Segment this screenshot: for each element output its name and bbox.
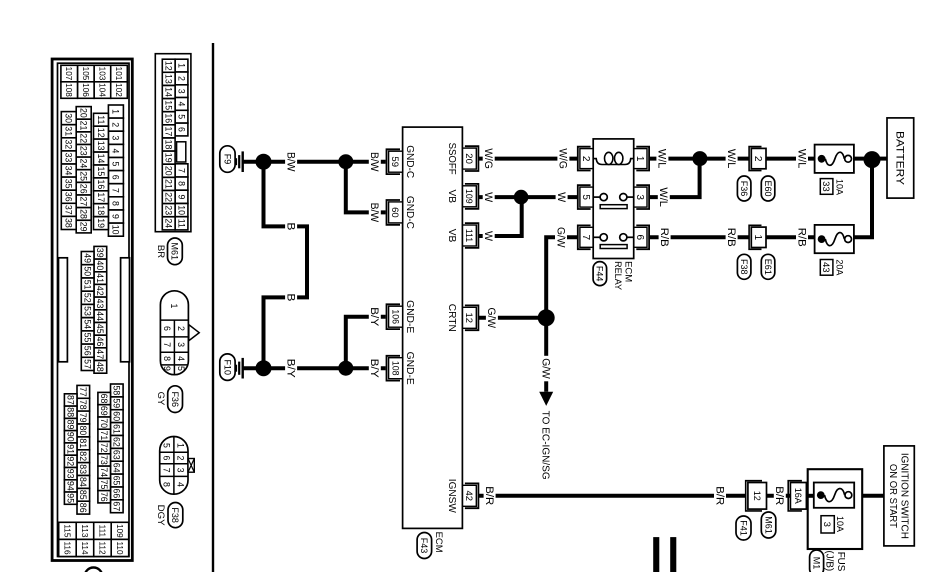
svg-text:16: 16 bbox=[164, 113, 174, 123]
svg-text:W/L: W/L bbox=[795, 149, 807, 169]
svg-text:93: 93 bbox=[66, 469, 76, 479]
svg-text:11: 11 bbox=[96, 115, 106, 124]
svg-text:F41: F41 bbox=[738, 520, 748, 536]
svg-text:G/W: G/W bbox=[485, 308, 497, 329]
wire label R/B bbox=[726, 225, 738, 249]
svg-text:109: 109 bbox=[464, 189, 474, 204]
svg-text:27: 27 bbox=[79, 196, 89, 206]
svg-text:59: 59 bbox=[112, 398, 122, 408]
oval F9 bbox=[220, 146, 235, 173]
svg-text:32: 32 bbox=[64, 139, 74, 149]
battery B+ node wire bbox=[872, 157, 887, 161]
connector F36 bbox=[160, 291, 188, 375]
ECM pin 12 CRTN bbox=[465, 305, 479, 330]
svg-text:35: 35 bbox=[64, 179, 74, 189]
svg-text:26: 26 bbox=[79, 184, 89, 194]
svg-text:F36: F36 bbox=[170, 391, 180, 407]
svg-text:7: 7 bbox=[580, 235, 591, 241]
svg-text:71: 71 bbox=[99, 431, 109, 441]
svg-text:5: 5 bbox=[111, 162, 121, 167]
node W junction bbox=[514, 190, 529, 205]
oval E60 bbox=[761, 176, 775, 201]
wire label B/R bbox=[714, 484, 726, 508]
svg-text:F43: F43 bbox=[419, 538, 429, 554]
svg-text:DGY: DGY bbox=[155, 505, 166, 527]
svg-text:68: 68 bbox=[99, 394, 109, 404]
svg-text:10: 10 bbox=[176, 205, 186, 215]
svg-text:56: 56 bbox=[83, 346, 93, 356]
svg-text:W: W bbox=[482, 231, 494, 241]
svg-text:3: 3 bbox=[634, 194, 645, 200]
svg-text:52: 52 bbox=[83, 293, 93, 303]
svg-text:20: 20 bbox=[463, 153, 474, 164]
svg-text:113: 113 bbox=[80, 524, 89, 537]
svg-text:1: 1 bbox=[111, 109, 121, 114]
oval F43 bbox=[417, 533, 432, 559]
svg-text:GY: GY bbox=[155, 392, 166, 406]
svg-text:87: 87 bbox=[66, 395, 76, 405]
svg-text:GND-C: GND-C bbox=[404, 196, 415, 229]
svg-text:102: 102 bbox=[114, 83, 123, 97]
svg-text:64: 64 bbox=[112, 463, 122, 473]
svg-text:18: 18 bbox=[164, 140, 174, 150]
page continuation mark lower bbox=[653, 537, 659, 572]
ECM connector guide slot upper bbox=[121, 258, 130, 362]
wire node to fuse 33 bbox=[854, 157, 872, 161]
svg-text:72: 72 bbox=[99, 443, 109, 453]
relay U1 ECM RELAY box bbox=[593, 139, 634, 259]
svg-text:BATTERY: BATTERY bbox=[894, 131, 906, 186]
svg-text:21: 21 bbox=[164, 179, 174, 189]
svg-text:8: 8 bbox=[176, 181, 186, 186]
wire B/Y pin106 to node bbox=[346, 317, 386, 369]
wire ign sw to fuse block bbox=[854, 494, 884, 498]
svg-text:6: 6 bbox=[634, 235, 645, 241]
svg-text:F10: F10 bbox=[222, 359, 232, 375]
wire label G/W bbox=[486, 305, 498, 331]
svg-text:89: 89 bbox=[66, 420, 76, 430]
page continuation mark upper bbox=[670, 537, 676, 572]
svg-text:ECM: ECM bbox=[623, 261, 634, 282]
svg-text:62: 62 bbox=[112, 437, 122, 447]
oval F38 bbox=[737, 254, 751, 279]
svg-text:W/G: W/G bbox=[557, 148, 569, 169]
svg-text:1: 1 bbox=[634, 156, 645, 162]
svg-text:73: 73 bbox=[99, 455, 109, 465]
svg-text:4: 4 bbox=[111, 148, 121, 153]
svg-text:1: 1 bbox=[169, 304, 179, 309]
svg-text:69: 69 bbox=[99, 406, 109, 416]
svg-text:2: 2 bbox=[176, 456, 186, 461]
svg-text:W/L: W/L bbox=[725, 149, 737, 169]
wire B/W pin60 to node bbox=[346, 162, 386, 213]
relay pin 6 bbox=[636, 225, 649, 249]
svg-text:24: 24 bbox=[164, 218, 174, 228]
ECM connector rows 11-19 bbox=[94, 113, 109, 126]
wire R/B fuse43 to connector E61-F38 bbox=[766, 235, 815, 239]
connector M61/F41 pin 12 bbox=[746, 481, 762, 511]
wire label W bbox=[483, 190, 495, 205]
wire label R/B bbox=[659, 225, 671, 249]
svg-text:109: 109 bbox=[115, 524, 124, 538]
wire R/B connector to relay pin 6 bbox=[649, 235, 749, 239]
svg-text:12: 12 bbox=[164, 61, 174, 71]
svg-text:8: 8 bbox=[162, 356, 172, 361]
svg-text:R/B: R/B bbox=[725, 228, 737, 247]
svg-text:59: 59 bbox=[389, 156, 400, 167]
svg-text:W/L: W/L bbox=[657, 187, 669, 207]
svg-text:1: 1 bbox=[752, 235, 763, 241]
svg-text:2: 2 bbox=[176, 326, 186, 331]
svg-text:22: 22 bbox=[79, 133, 89, 143]
wire W/G relay pin2 to ECM pin20 bbox=[479, 157, 578, 161]
svg-text:85: 85 bbox=[78, 490, 88, 500]
svg-text:B/W: B/W bbox=[368, 203, 380, 223]
ground symbol F10 bbox=[242, 358, 244, 379]
svg-text:16A: 16A bbox=[793, 488, 803, 504]
svg-text:41: 41 bbox=[95, 273, 105, 283]
ECM pin 60 GND-C bbox=[387, 200, 401, 225]
svg-text:51: 51 bbox=[83, 280, 93, 290]
node W/L junction bbox=[692, 151, 707, 166]
oval F41 bbox=[736, 516, 751, 540]
svg-text:B/W: B/W bbox=[368, 152, 380, 172]
svg-text:115: 115 bbox=[63, 524, 72, 537]
svg-text:2: 2 bbox=[111, 122, 121, 127]
svg-text:ECM: ECM bbox=[433, 532, 444, 553]
relay pin 2 bbox=[578, 147, 591, 171]
ECM connector rows 1-10 bbox=[108, 105, 123, 118]
svg-text:RELAY: RELAY bbox=[612, 261, 623, 291]
svg-text:10: 10 bbox=[111, 225, 121, 235]
wire battery node to fuse 43 branch bbox=[854, 159, 872, 238]
svg-text:B/R: B/R bbox=[773, 486, 785, 505]
svg-text:5: 5 bbox=[176, 114, 186, 119]
svg-text:20: 20 bbox=[79, 108, 89, 118]
svg-text:3: 3 bbox=[176, 468, 186, 473]
arrow to EC-IGN/SG bbox=[539, 392, 553, 406]
svg-text:W: W bbox=[555, 192, 567, 202]
svg-text:91: 91 bbox=[66, 444, 76, 454]
ECM connector rows 68-76 bbox=[98, 392, 111, 404]
svg-text:23: 23 bbox=[79, 146, 89, 156]
svg-text:82: 82 bbox=[78, 451, 88, 461]
svg-text:W/L: W/L bbox=[656, 149, 668, 169]
svg-text:VB: VB bbox=[446, 190, 457, 204]
fuse 43 20A bbox=[815, 225, 854, 253]
node F10 ground junction bbox=[256, 360, 272, 376]
node B/W junction bbox=[338, 154, 353, 169]
svg-text:33: 33 bbox=[64, 153, 74, 163]
svg-text:B: B bbox=[284, 293, 296, 301]
svg-text:49: 49 bbox=[83, 253, 93, 263]
svg-text:W/G: W/G bbox=[482, 148, 494, 169]
svg-text:46: 46 bbox=[95, 337, 105, 347]
oval M61 passthrough bbox=[761, 512, 776, 538]
svg-text:VB: VB bbox=[446, 229, 457, 243]
svg-text:M1: M1 bbox=[811, 557, 821, 570]
svg-text:B/R: B/R bbox=[713, 486, 725, 505]
ECM pin 42 IGNSW bbox=[465, 483, 479, 508]
svg-text:23: 23 bbox=[164, 205, 174, 215]
ECM connector outer box bbox=[52, 59, 132, 561]
svg-text:16: 16 bbox=[96, 180, 106, 190]
svg-text:45: 45 bbox=[95, 324, 105, 334]
svg-text:19: 19 bbox=[164, 153, 174, 163]
wire label B/R bbox=[774, 484, 786, 508]
ECM pin 109 VB bbox=[465, 184, 479, 209]
ECM connector rows 39-48 bbox=[94, 246, 107, 259]
oval F36 GY bbox=[168, 386, 183, 413]
svg-text:67: 67 bbox=[112, 501, 122, 511]
svg-text:57: 57 bbox=[83, 359, 93, 369]
svg-text:CRTN: CRTN bbox=[446, 304, 457, 332]
relay pin 1 bbox=[636, 147, 649, 171]
ECM U2 box bbox=[403, 127, 463, 528]
svg-text:90: 90 bbox=[66, 432, 76, 442]
wire label B/W bbox=[369, 200, 381, 225]
svg-text:33: 33 bbox=[820, 181, 831, 192]
wire G/W node to ECM pin12 bbox=[479, 316, 546, 320]
wire label B/W bbox=[285, 149, 297, 174]
svg-text:77: 77 bbox=[78, 387, 88, 397]
wire fuse block to 16A connector bbox=[803, 494, 814, 498]
svg-text:54: 54 bbox=[83, 319, 93, 329]
svg-text:3: 3 bbox=[176, 342, 186, 347]
wire label B bbox=[285, 291, 297, 304]
wire label G/W bbox=[555, 225, 567, 251]
svg-text:43: 43 bbox=[820, 262, 831, 273]
svg-text:86: 86 bbox=[78, 503, 88, 513]
svg-text:74: 74 bbox=[99, 467, 109, 477]
bolt circle at page edge bbox=[85, 568, 103, 572]
svg-text:R/B: R/B bbox=[658, 228, 670, 247]
svg-text:63: 63 bbox=[112, 450, 122, 460]
svg-text:B/Y: B/Y bbox=[368, 307, 380, 326]
svg-text:38: 38 bbox=[64, 218, 74, 228]
svg-text:3: 3 bbox=[111, 135, 121, 140]
svg-text:BR: BR bbox=[155, 245, 166, 258]
svg-text:E61: E61 bbox=[763, 259, 773, 275]
wire label W bbox=[556, 190, 568, 205]
ignition switch box bbox=[884, 446, 914, 546]
svg-text:104: 104 bbox=[97, 83, 106, 97]
wire B/W node to ground node bbox=[264, 160, 346, 164]
svg-text:116: 116 bbox=[63, 541, 72, 554]
relay pin 3 bbox=[636, 185, 649, 209]
svg-text:E60: E60 bbox=[763, 180, 773, 196]
svg-text:20A: 20A bbox=[834, 259, 845, 276]
svg-text:25: 25 bbox=[79, 171, 89, 181]
wire B/R 16A to connector 12 bbox=[766, 494, 790, 498]
svg-text:F44: F44 bbox=[595, 266, 605, 282]
svg-text:F9: F9 bbox=[222, 154, 232, 165]
node F9 ground junction bbox=[256, 154, 272, 170]
svg-text:15: 15 bbox=[164, 100, 174, 110]
svg-text:B/W: B/W bbox=[284, 152, 296, 172]
wire W relay pin5 to ECM pin109 bbox=[479, 195, 578, 199]
svg-text:39: 39 bbox=[95, 248, 105, 258]
wire label B/Y bbox=[285, 356, 297, 380]
svg-text:B/R: B/R bbox=[483, 486, 495, 505]
oval M1 bbox=[810, 550, 824, 572]
svg-text:40: 40 bbox=[95, 261, 105, 271]
wire B/Y pin108 to node bbox=[346, 366, 386, 370]
svg-text:47: 47 bbox=[95, 349, 105, 359]
svg-text:31: 31 bbox=[64, 126, 74, 136]
svg-text:7: 7 bbox=[162, 342, 172, 347]
svg-text:2: 2 bbox=[752, 156, 763, 162]
svg-text:G/W: G/W bbox=[554, 227, 566, 248]
svg-text:3: 3 bbox=[176, 89, 186, 94]
svg-text:18: 18 bbox=[96, 205, 106, 215]
ECM connector rows 87-95 bbox=[64, 394, 77, 406]
svg-text:2: 2 bbox=[580, 156, 591, 162]
ground symbol F9 bbox=[242, 151, 244, 172]
ECM connector block 101-108 bbox=[111, 65, 128, 82]
ECM connector rows 20-29 bbox=[76, 107, 91, 120]
svg-text:GND-C: GND-C bbox=[404, 145, 415, 178]
svg-text:R/B: R/B bbox=[795, 228, 807, 247]
wire G/W relay pin7 down bbox=[546, 237, 577, 317]
svg-text:111: 111 bbox=[464, 229, 474, 242]
wire label W/L bbox=[796, 146, 808, 171]
fuse number 33 bbox=[820, 179, 833, 195]
ECM pin 20 SSOFF bbox=[465, 146, 479, 171]
F36 key triangle bbox=[189, 325, 199, 341]
relay contact b bbox=[593, 236, 600, 238]
svg-text:F38: F38 bbox=[170, 507, 180, 523]
svg-text:4: 4 bbox=[176, 356, 186, 361]
connector M61 grid cells bbox=[175, 59, 188, 72]
svg-text:78: 78 bbox=[78, 400, 88, 410]
wire label B/Y bbox=[369, 305, 381, 329]
svg-text:107: 107 bbox=[64, 67, 73, 81]
relay pin 5 bbox=[578, 185, 591, 209]
svg-text:65: 65 bbox=[112, 476, 122, 486]
wire label B/W bbox=[369, 149, 381, 174]
svg-text:10A: 10A bbox=[834, 516, 845, 533]
svg-text:6: 6 bbox=[111, 175, 121, 180]
svg-text:6: 6 bbox=[162, 326, 172, 331]
svg-text:50: 50 bbox=[83, 266, 93, 276]
connector 16A J/B bbox=[788, 481, 802, 511]
separator line bbox=[212, 43, 214, 572]
svg-text:22: 22 bbox=[164, 192, 174, 202]
svg-text:5: 5 bbox=[176, 366, 186, 371]
wire label B bbox=[285, 220, 297, 233]
wire G/W node to arrow bbox=[544, 318, 548, 392]
svg-text:GND-E: GND-E bbox=[404, 300, 415, 333]
svg-text:4: 4 bbox=[176, 101, 186, 106]
svg-text:W: W bbox=[482, 192, 494, 202]
oval E61 bbox=[761, 254, 775, 279]
svg-text:37: 37 bbox=[64, 205, 74, 215]
svg-text:2: 2 bbox=[176, 76, 186, 81]
svg-text:14: 14 bbox=[164, 87, 174, 97]
wire B linking F9 and F10 grounds bbox=[264, 162, 308, 369]
svg-text:19: 19 bbox=[96, 218, 106, 228]
svg-text:28: 28 bbox=[79, 209, 89, 219]
svg-text:GND-E: GND-E bbox=[404, 352, 415, 385]
svg-text:B/Y: B/Y bbox=[368, 359, 380, 378]
svg-text:13: 13 bbox=[164, 74, 174, 84]
svg-text:58: 58 bbox=[112, 386, 122, 396]
svg-text:17: 17 bbox=[164, 127, 174, 137]
ECM pin 59 GND-C bbox=[387, 149, 401, 174]
svg-text:114: 114 bbox=[80, 541, 89, 554]
wire W/L connector to W/L node bbox=[700, 157, 749, 161]
node battery junction bbox=[864, 151, 881, 168]
svg-text:20: 20 bbox=[164, 166, 174, 176]
svg-text:111: 111 bbox=[98, 525, 107, 538]
svg-text:7: 7 bbox=[162, 468, 172, 473]
svg-text:6: 6 bbox=[162, 456, 172, 461]
svg-text:61: 61 bbox=[112, 424, 122, 434]
svg-text:108: 108 bbox=[64, 83, 73, 97]
svg-text:48: 48 bbox=[95, 362, 105, 372]
oval F36 bbox=[737, 176, 751, 201]
ECM pin 108 GND-E bbox=[387, 356, 401, 381]
fuse number 43 bbox=[820, 260, 833, 276]
battery box bbox=[887, 118, 914, 198]
wire B/Y node to ground node bbox=[264, 366, 346, 370]
svg-text:83: 83 bbox=[78, 464, 88, 474]
svg-text:FUSE BLOCK: FUSE BLOCK bbox=[835, 552, 846, 572]
svg-text:12: 12 bbox=[752, 491, 762, 501]
svg-text:75: 75 bbox=[99, 480, 109, 490]
svg-text:24: 24 bbox=[79, 159, 89, 169]
svg-text:8: 8 bbox=[111, 201, 121, 206]
ECM connector rows 77-86 bbox=[77, 385, 90, 398]
wire B/R connector 12 to ECM pin 42 bbox=[479, 494, 746, 498]
svg-text:105: 105 bbox=[81, 67, 90, 81]
svg-text:34: 34 bbox=[64, 166, 74, 176]
ECM connector block 109-116 bbox=[111, 522, 129, 539]
svg-text:12: 12 bbox=[463, 313, 474, 324]
svg-text:5: 5 bbox=[580, 194, 591, 200]
wire W/L fuse33 to connector E60-F36 bbox=[766, 157, 815, 161]
svg-text:88: 88 bbox=[66, 407, 76, 417]
svg-text:94: 94 bbox=[66, 481, 76, 491]
wire label W/L bbox=[658, 185, 670, 210]
svg-text:43: 43 bbox=[95, 299, 105, 309]
fuse number 3 bbox=[821, 516, 834, 533]
connector F38 bbox=[160, 437, 188, 495]
wire B/W pin59 to node bbox=[346, 160, 386, 164]
svg-text:76: 76 bbox=[99, 492, 109, 502]
oval M61 BR bbox=[168, 238, 183, 265]
wire label W/G bbox=[557, 146, 569, 172]
ECM pin 111 VB bbox=[465, 223, 479, 248]
ECM connector rows 58-67 bbox=[111, 384, 124, 397]
wire to ground F10 bbox=[244, 366, 264, 370]
svg-text:9: 9 bbox=[162, 366, 172, 371]
svg-text:9: 9 bbox=[111, 214, 121, 219]
svg-text:106: 106 bbox=[390, 309, 400, 324]
wire to ground F9 bbox=[244, 160, 264, 164]
svg-text:13: 13 bbox=[96, 141, 106, 151]
svg-text:103: 103 bbox=[97, 67, 106, 81]
svg-text:29: 29 bbox=[79, 222, 89, 232]
ECM connector rows 49-57 bbox=[81, 252, 94, 265]
svg-text:7: 7 bbox=[176, 168, 186, 173]
wire W/L node to relay pin 1 bbox=[649, 157, 700, 161]
svg-text:B: B bbox=[284, 222, 296, 230]
svg-text:7: 7 bbox=[111, 188, 121, 193]
svg-text:12: 12 bbox=[96, 128, 106, 138]
svg-text:112: 112 bbox=[98, 541, 107, 554]
